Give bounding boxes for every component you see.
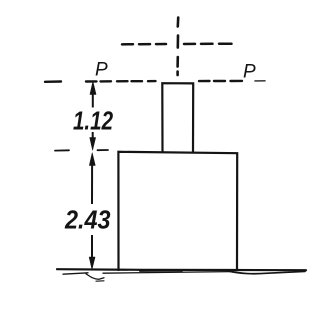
top dashed axis line [122,42,232,45]
label P right [243,62,256,83]
svg-text:2.43: 2.43 [64,207,110,235]
vertical centerline (dashed) [176,18,179,76]
label P left [95,60,108,81]
dimension line 2.43 (arrows and shaft) [89,153,95,270]
label 2.43 [64,207,110,235]
foundation block (lower rectangle) [118,152,237,270]
svg-text:1.12: 1.12 [73,108,113,136]
dimension line 1.12 (arrows and shaft) [90,81,96,150]
ground sketch strokes [63,271,305,281]
label 1.12 [73,108,113,136]
svg-text:P: P [243,62,256,83]
P-P axis dashed line [45,81,265,82]
column block (upper rectangle) [162,83,193,152]
ground line (main stroke) [57,269,306,271]
extension line at foundation top [55,149,108,152]
svg-text:P: P [95,60,108,81]
